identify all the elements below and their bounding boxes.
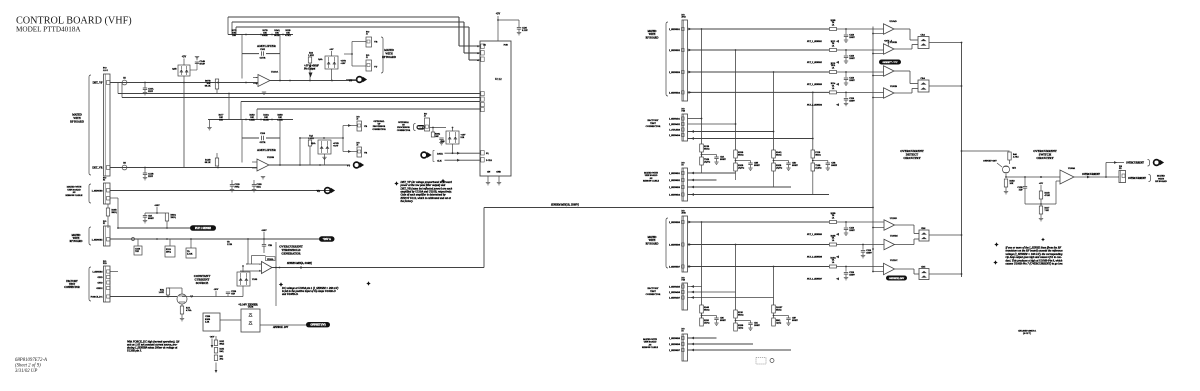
- svg-text:MATED WITH: MATED WITH: [643, 338, 657, 341]
- svg-text:68.1K: 68.1K: [205, 161, 211, 164]
- svg-text:FLT_2_SEN5B2: FLT_2_SEN5B2: [806, 62, 823, 64]
- svg-text:Q5A: Q5A: [311, 142, 316, 145]
- svg-text:CONNECTOR: CONNECTOR: [397, 130, 411, 132]
- svg-text:GENERATOR: GENERATOR: [281, 251, 301, 255]
- svg-text:CONNECTOR: CONNECTOR: [646, 125, 661, 128]
- svg-text:U12B: U12B: [248, 306, 254, 309]
- svg-text:REF 1: REF 1: [418, 127, 424, 129]
- svg-text:10B: 10B: [219, 119, 223, 121]
- svg-text:I_SEN6B2: I_SEN6B2: [669, 179, 681, 182]
- svg-text:I_SEN6B5: I_SEN6B5: [669, 337, 681, 340]
- svg-text:U110A: U110A: [271, 71, 278, 74]
- svg-text:POD: POD: [504, 45, 509, 47]
- svg-text:VB: VB: [364, 153, 368, 155]
- svg-text:-: -: [256, 77, 257, 80]
- svg-text:OVERCURRENT: OVERCURRENT: [1126, 162, 1144, 165]
- svg-text:DET_VF: DET_VF: [93, 82, 103, 85]
- svg-text:CONNECTOR: CONNECTOR: [64, 286, 80, 289]
- svg-text:Pin Output: Pin Output: [303, 67, 316, 70]
- svg-text:OFFSET (W): OFFSET (W): [310, 324, 325, 327]
- svg-text:SOURCE: SOURCE: [196, 281, 209, 285]
- svg-text:U110C: U110C: [890, 62, 897, 65]
- svg-text:Q4B: Q4B: [172, 68, 177, 71]
- svg-text:I_SEN6B3: I_SEN6B3: [669, 186, 681, 189]
- svg-text:UHF BOARD: UHF BOARD: [644, 341, 657, 344]
- svg-text:P1: P1: [103, 223, 105, 225]
- svg-text:500PF: 500PF: [792, 320, 798, 322]
- svg-text:(A)TQ: (A)TQ: [738, 166, 744, 169]
- svg-text:P2: P2: [682, 165, 684, 167]
- svg-text:FLT_1_SEN5B7: FLT_1_SEN5B7: [806, 279, 823, 281]
- svg-text:500PF: 500PF: [831, 165, 837, 167]
- svg-text:I_SEN5B6: I_SEN5B6: [669, 244, 681, 247]
- svg-text:OPTIONAL: OPTIONAL: [374, 120, 386, 123]
- svg-text:A(1Q: A(1Q: [776, 321, 781, 324]
- svg-text:U120R pin 3.: U120R pin 3.: [127, 350, 142, 353]
- svg-text:Q5B: Q5B: [440, 141, 445, 143]
- svg-text:51.1K: 51.1K: [263, 119, 269, 121]
- svg-text:CLK: CLK: [437, 159, 442, 162]
- svg-text:+5V: +5V: [496, 13, 501, 16]
- svg-text:FLT_1_SEN5B1: FLT_1_SEN5B1: [806, 41, 822, 43]
- svg-text:9R1Q: 9R1Q: [704, 309, 710, 311]
- svg-text:APPROX. 20V: APPROX. 20V: [272, 326, 288, 329]
- svg-text:R4Q: R4Q: [220, 351, 224, 353]
- svg-text:-26V: -26V: [210, 336, 215, 339]
- svg-text:500PF: 500PF: [148, 218, 154, 220]
- svg-text:AMPLIFIER: AMPLIFIER: [257, 148, 277, 152]
- svg-text:VR: VR: [316, 190, 320, 193]
- svg-text:100PF: 100PF: [849, 37, 855, 39]
- svg-text:U112: U112: [495, 77, 502, 81]
- svg-text:RF BOARD: RF BOARD: [1155, 180, 1167, 183]
- svg-text:SENSES MIN(A, SORH): SENSES MIN(A, SORH): [287, 262, 312, 265]
- svg-text:I_SEN5E6: I_SEN5E6: [92, 271, 103, 274]
- svg-text:GND: GND: [97, 276, 102, 279]
- svg-text:U105: U105: [252, 278, 258, 281]
- svg-text:2R1Q: 2R1Q: [171, 217, 177, 219]
- svg-text:1.32K: 1.32K: [308, 54, 314, 57]
- svg-text:500PF: 500PF: [754, 165, 760, 167]
- svg-text:U12RC: U12RC: [890, 259, 898, 262]
- svg-text:2.4R: 2.4R: [205, 322, 210, 324]
- svg-text:CONNECTOR: CONNECTOR: [372, 129, 386, 131]
- svg-text:A(1Q: A(1Q: [738, 326, 743, 329]
- svg-text:-26V: -26V: [214, 288, 219, 291]
- svg-text:1.87K: 1.87K: [159, 292, 165, 294]
- svg-text:98Q2: 98Q2: [220, 343, 225, 345]
- svg-text:U110B: U110B: [267, 156, 274, 159]
- svg-text:R10B: R10B: [205, 319, 211, 321]
- svg-text:3/31/02 UP: 3/31/02 UP: [15, 369, 37, 374]
- svg-text:100PF: 100PF: [849, 58, 855, 60]
- svg-text:2.21K: 2.21K: [187, 254, 193, 256]
- svg-text:100PF: 100PF: [849, 230, 855, 232]
- svg-text:the factory.: the factory.: [401, 199, 414, 203]
- svg-text:I_SEN4B4: I_SEN4B4: [669, 134, 681, 137]
- svg-text:I_SEN4B7: I_SEN4B7: [669, 297, 681, 300]
- svg-text:RF BOARD: RF BOARD: [646, 36, 659, 39]
- svg-text:+5V: +5V: [1039, 182, 1043, 185]
- svg-text:P2: P2: [682, 331, 684, 333]
- svg-text:100PF: 100PF: [866, 252, 872, 254]
- svg-text:9R1Q: 9R1Q: [776, 309, 782, 311]
- svg-text:C13B: C13B: [205, 316, 211, 318]
- svg-text:2R7Q: 2R7Q: [704, 322, 710, 324]
- svg-text:I_SEN5B3: I_SEN5B3: [669, 71, 681, 74]
- svg-text:RF BOARD: RF BOARD: [70, 120, 84, 123]
- svg-text:U102B: U102B: [890, 85, 897, 88]
- svg-text:(A)TQ: (A)TQ: [815, 166, 821, 169]
- svg-text:+26V: +26V: [261, 229, 267, 232]
- svg-text:(A)TQ: (A)TQ: [776, 166, 782, 169]
- svg-text:4.7K2: 4.7K2: [285, 35, 290, 37]
- svg-text:(Sheet 2 of 9): (Sheet 2 of 9): [15, 364, 41, 369]
- svg-text:10K: 10K: [435, 136, 439, 138]
- svg-text:47.5K: 47.5K: [1045, 195, 1051, 197]
- svg-text:+26V: +26V: [154, 204, 160, 207]
- svg-text:I_SEN6B6: I_SEN6B6: [669, 343, 681, 346]
- svg-text:I_SENSE5: I_SENSE5: [92, 239, 104, 242]
- svg-text:22PF: 22PF: [148, 90, 154, 93]
- svg-text:CIRCUITRY: CIRCUITRY: [903, 156, 921, 160]
- svg-text:1.32K: 1.32K: [249, 119, 255, 121]
- svg-text:9R1Q: 9R1Q: [738, 154, 744, 156]
- svg-text:9R1Q: 9R1Q: [112, 212, 118, 214]
- svg-text:I_SEN5B7: I_SEN5B7: [669, 266, 681, 269]
- svg-text:FLT 1 SENSE: FLT 1 SENSE: [195, 227, 211, 230]
- svg-text:100PF: 100PF: [849, 80, 855, 82]
- svg-text:500PF: 500PF: [792, 165, 798, 167]
- svg-text:JP2B: JP2B: [682, 213, 687, 215]
- svg-text:50UF: 50UF: [200, 63, 206, 66]
- svg-text:68.1K: 68.1K: [205, 85, 211, 88]
- svg-text:(3 OF 7): (3 OF 7): [1023, 332, 1031, 335]
- svg-text:J1: J1: [366, 57, 368, 59]
- svg-text:P1B: P1B: [103, 263, 107, 265]
- svg-text:4P1Q: 4P1Q: [166, 252, 171, 254]
- svg-text:100PF: 100PF: [754, 325, 760, 327]
- svg-text:OPTIONAL: OPTIONAL: [398, 121, 410, 124]
- svg-text:51R: 51R: [461, 137, 465, 139]
- svg-text:I_SEN6B1: I_SEN6B1: [669, 172, 681, 175]
- svg-text:DET_VR: DET_VR: [92, 167, 102, 170]
- svg-text:MATED WITH: MATED WITH: [644, 172, 658, 175]
- svg-text:+26V A: +26V A: [323, 238, 332, 241]
- svg-text:I_STA5B3: I_STA5B3: [669, 129, 681, 132]
- svg-text:J1: J1: [366, 34, 368, 36]
- svg-text:causes U106B-Pin 7 (OVERCURREN: causes U106B-Pin 7 (OVERCURRENT) to go l…: [1006, 262, 1064, 266]
- svg-text:I_SEN5B1: I_SEN5B1: [669, 28, 681, 31]
- svg-text:U10bD: U10bD: [890, 20, 897, 23]
- svg-text:GND: GND: [97, 282, 102, 285]
- svg-text:56.2K: 56.2K: [274, 35, 280, 37]
- svg-text:VF: VF: [349, 80, 353, 83]
- svg-text:G2TR: G2TR: [260, 141, 266, 144]
- svg-text:I_SEN6B4: I_SEN6B4: [669, 194, 681, 197]
- svg-text:VB: VB: [374, 41, 378, 44]
- svg-text:UHF BOARD: UHF BOARD: [645, 174, 658, 177]
- svg-text:J2: J2: [424, 116, 426, 118]
- svg-text:CIRCUITRY: CIRCUITRY: [1036, 156, 1054, 160]
- svg-text:0.1UF: 0.1UF: [522, 30, 528, 32]
- svg-text:RF BOARD: RF BOARD: [646, 242, 659, 245]
- svg-text:U10bM: U10bM: [890, 235, 898, 238]
- svg-text:U120A: U120A: [267, 258, 274, 261]
- svg-text:A1-2: A1-2: [103, 69, 109, 72]
- svg-text:20Q: 20Q: [220, 358, 224, 360]
- svg-text:RIBBON CABLE: RIBBON CABLE: [643, 180, 660, 183]
- svg-text:-: -: [259, 263, 260, 266]
- svg-text:I_SEN4B2: I_SEN4B2: [669, 123, 681, 126]
- svg-text:9R1Q: 9R1Q: [738, 314, 744, 316]
- svg-text:4.75A: 4.75A: [186, 309, 192, 312]
- svg-text:FLT_2_SEN5B4: FLT_2_SEN5B4: [806, 103, 823, 106]
- svg-text:I_SEN4B5: I_SEN4B5: [669, 286, 681, 289]
- svg-text:P2: P2: [103, 180, 105, 182]
- svg-text:CONNECTOR: CONNECTOR: [646, 293, 661, 296]
- svg-text:OFFSET(-26V: OFFSET(-26V: [889, 277, 905, 280]
- svg-text:OFFSET+26V: OFFSET+26V: [983, 160, 997, 163]
- svg-text:100PF: 100PF: [849, 274, 855, 276]
- svg-text:DATA: DATA: [437, 153, 443, 156]
- svg-text:10K: 10K: [1010, 183, 1014, 185]
- svg-text:22PF: 22PF: [148, 175, 154, 178]
- svg-text:RF BOARD: RF BOARD: [382, 56, 396, 59]
- svg-text:MODEL PTTD4018A: MODEL PTTD4018A: [16, 26, 81, 34]
- svg-text:C2R: C2R: [268, 245, 273, 247]
- svg-text:1.21R: 1.21R: [227, 244, 233, 246]
- svg-text:U120D: U120D: [890, 217, 897, 220]
- svg-text:+10V: +10V: [341, 63, 346, 65]
- svg-text:RIBBON CABLE: RIBBON CABLE: [642, 346, 659, 349]
- svg-text:9R1Q: 9R1Q: [815, 154, 821, 156]
- svg-text:FLT_1_SEN5B3: FLT_1_SEN5B3: [806, 84, 823, 86]
- svg-text:J3: J3: [357, 145, 359, 147]
- svg-text:RIBBON CABLE: RIBBON CABLE: [66, 194, 83, 197]
- svg-text:9R1Q: 9R1Q: [704, 148, 710, 150]
- svg-text:FORCE_DC: FORCE_DC: [91, 296, 103, 299]
- svg-text:9R1Q: 9R1Q: [776, 154, 782, 156]
- svg-text:7.5K: 7.5K: [1045, 210, 1050, 212]
- svg-text:I_SENSE8: I_SENSE8: [92, 190, 104, 193]
- svg-text:500PF: 500PF: [720, 320, 726, 322]
- svg-text:J2: J2: [357, 119, 359, 121]
- svg-text:4.7K4: 4.7K4: [1013, 157, 1019, 159]
- svg-text:OVERCURRENT: OVERCURRENT: [1082, 173, 1100, 176]
- svg-text:GND: GND: [496, 172, 501, 174]
- svg-text:VT: VT: [374, 66, 378, 69]
- svg-text:U102R: U102R: [890, 41, 897, 44]
- svg-text:C162: C162: [260, 48, 266, 51]
- svg-text:10B: 10B: [232, 35, 236, 37]
- svg-text:C159: C159: [260, 132, 266, 135]
- svg-text:GND2: GND2: [96, 287, 103, 290]
- svg-text:I_SEN5B2: I_SEN5B2: [669, 49, 681, 52]
- svg-text:U10bR: U10bR: [1068, 167, 1075, 170]
- svg-text:SENSEM MIN(1B, 250HV): SENSEM MIN(1B, 250HV): [551, 204, 579, 207]
- svg-text:VB: VB: [364, 126, 368, 128]
- svg-text:+5V: +5V: [329, 48, 333, 51]
- svg-text:Q4A: Q4A: [318, 58, 323, 61]
- svg-text:and U103B-D.: and U103B-D.: [282, 293, 299, 296]
- svg-text:(A)TQ: (A)TQ: [704, 160, 710, 163]
- svg-text:+5V: +5V: [182, 56, 187, 59]
- svg-text:FLT_1_SEN5B5: FLT_1_SEN5B5: [806, 234, 823, 236]
- svg-text:I_SEN5B5: I_SEN5B5: [669, 221, 681, 224]
- svg-text:OVERCURRENT: OVERCURRENT: [1128, 177, 1146, 180]
- svg-text:JP1B: JP1B: [682, 17, 687, 19]
- svg-text:I_SEN4B1: I_SEN4B1: [669, 118, 681, 121]
- svg-text:6.02K: 6.02K: [262, 35, 268, 37]
- svg-text:500PF: 500PF: [720, 159, 726, 161]
- svg-text:GN: GN: [487, 172, 491, 174]
- svg-text:I_SEN6B7: I_SEN6B7: [669, 349, 681, 352]
- svg-text:I_SEN4B6: I_SEN4B6: [669, 291, 681, 294]
- svg-text:RF BOARD: RF BOARD: [70, 240, 83, 243]
- svg-text:68P81097E72-A: 68P81097E72-A: [15, 358, 47, 363]
- svg-text:100PF: 100PF: [849, 100, 855, 102]
- svg-text:J51: J51: [1119, 168, 1122, 170]
- svg-text:R4Q: R4Q: [257, 187, 262, 189]
- svg-text:+10V: +10V: [333, 145, 339, 148]
- svg-text:3WQ: 3WQ: [235, 187, 240, 189]
- svg-text:FLT_2_SEN5B6: FLT_2_SEN5B6: [806, 257, 823, 259]
- svg-text:G2TR: G2TR: [260, 57, 266, 60]
- svg-text:I_SEN5B4: I_SEN5B4: [669, 91, 681, 94]
- svg-text:P-CLR: P-CLR: [486, 160, 493, 162]
